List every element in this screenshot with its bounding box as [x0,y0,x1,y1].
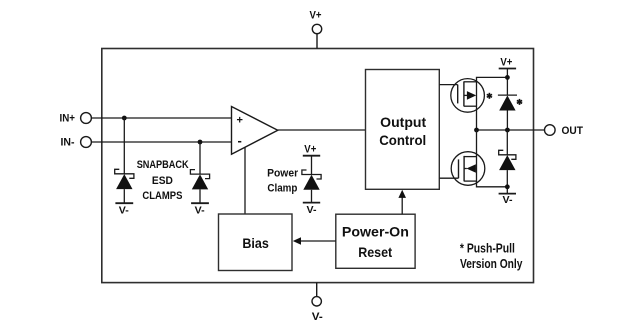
wire IN- node down to ESD diode D2 [199,142,201,174]
ESD snapback diode D2 [190,170,209,217]
IN+ terminal [60,113,92,125]
node junction OUT / Q1-Q2 [474,128,479,133]
svg-text:V+: V+ [500,57,512,69]
Output Control block [366,70,440,190]
V+ rail top right [499,57,516,69]
wire V+ rail to power clamp diode [311,156,313,175]
svg-text:V-: V- [195,205,205,216]
V+ top terminal [310,10,322,34]
wire Q1 source down to OUT node [476,82,478,130]
wire Q2 drain from OUT node down, source to V- node [477,130,508,187]
svg-text:Power-On: Power-On [342,223,409,239]
svg-text:V-: V- [119,205,129,216]
asterisk for Q1 [487,93,492,99]
IN- terminal [61,137,92,149]
svg-text:IN-: IN- [61,137,75,149]
node junction V- [505,184,510,189]
label Power Clamp [267,167,299,194]
transistor Q1 (PMOS, push-pull high side) [451,79,485,113]
svg-text:OUT: OUT [562,125,584,137]
wire Power-On Reset up to Output Control with arrowhead [398,190,406,215]
V- bottom terminal [312,297,323,323]
svg-text:Reset: Reset [358,244,392,260]
diode D4 (push-pull only) [498,95,517,130]
ESD snapback diode D1 [115,169,134,216]
Power-On Reset block [336,214,415,268]
svg-text:Clamp: Clamp [267,182,297,194]
node junction OUT / diodes [505,128,510,133]
wire V+ rail down to diode D4 [506,69,508,96]
wire IN- to op-amp - input [91,141,231,143]
svg-text:V+: V+ [310,10,322,22]
wire Power-On Reset to Bias with arrowhead [293,237,336,245]
snapback diode D5 (output clamp) [499,130,516,194]
OUT row wire [477,129,545,131]
wire Output Control to Q2 gate [439,177,458,179]
svg-text:V-: V- [503,195,513,206]
svg-text:Output: Output [380,114,426,130]
svg-text:+: + [236,115,242,127]
wire IN+ to op-amp + input [91,117,231,119]
svg-text:V-: V- [307,205,317,216]
svg-text:IN+: IN+ [60,113,76,125]
svg-text:V-: V- [312,311,323,323]
OUT terminal [545,125,584,137]
node junction on IN+ [122,116,127,121]
node junction at V+ [505,75,510,80]
wire V+ terminal to box [316,34,318,49]
node junction on IN- [198,140,203,145]
op-amp U1 [232,107,278,155]
svg-text:-: - [238,133,242,148]
transistor Q2 (NMOS, low side) [451,152,485,186]
svg-text:Control: Control [379,132,426,148]
svg-text:ESD: ESD [152,175,173,187]
svg-text:* Push-Pull: * Push-Pull [460,242,515,256]
wire IN+ node down to ESD diode D1 [123,118,125,174]
svg-text:Version Only: Version Only [460,257,523,271]
asterisk for D4 [517,99,522,105]
svg-text:SNAPBACK: SNAPBACK [137,159,189,171]
label SNAPBACK ESD CLAMPS [137,159,189,202]
power clamp snapback diode D3 [302,170,321,216]
svg-text:V+: V+ [304,144,316,156]
outer IC boundary box [102,49,534,283]
svg-text:Power: Power [267,167,299,179]
svg-text:CLAMPS: CLAMPS [142,190,182,202]
wire Q1 drain up and over to V+ node [477,77,508,81]
wire Output Control to Q1 gate [439,84,457,86]
Bias block [219,214,293,271]
V- rail bottom right [499,194,516,206]
wire box to V- terminal [316,283,318,297]
wire op-amp to Bias [244,147,246,214]
svg-text:Bias: Bias [242,235,269,251]
note * Push-Pull Version Only [460,242,523,271]
wire op-amp output to Output Control [278,129,366,131]
Power Clamp V+ rail [303,144,320,156]
